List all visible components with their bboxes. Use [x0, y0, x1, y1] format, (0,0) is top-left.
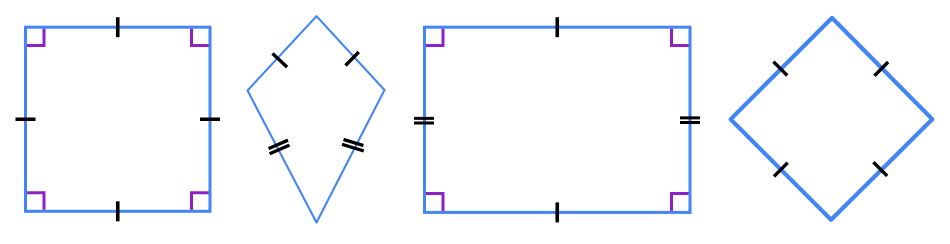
rhombus tick lower-right — [873, 162, 887, 176]
rectangle double tick right — [680, 118, 700, 123]
rhombus tick upper-left — [773, 62, 787, 76]
rhombus tick upper-right — [874, 62, 888, 76]
square tick left — [16, 117, 36, 121]
kite tick upper-right — [346, 52, 359, 66]
rectangle tick top — [555, 17, 559, 37]
square right-angle marker top-left — [27, 29, 44, 46]
rectangle — [425, 27, 691, 212]
rhombus — [731, 18, 933, 220]
rectangle tick bottom — [555, 202, 559, 222]
square right-angle marker bottom-right — [192, 193, 209, 210]
rectangle double tick left — [414, 118, 434, 123]
square right-angle marker top-right — [192, 29, 209, 46]
square tick bottom — [116, 201, 120, 221]
square — [26, 27, 211, 211]
rectangle right-angle marker bottom-right — [672, 194, 689, 211]
rectangle right-angle marker top-right — [672, 29, 689, 46]
square tick right — [200, 117, 220, 121]
kite double tick lower-right — [342, 140, 364, 151]
kite double tick lower-left — [269, 140, 290, 154]
rectangle right-angle marker bottom-left — [426, 194, 443, 211]
kite — [248, 16, 385, 222]
kite tick upper-left — [273, 54, 288, 68]
rectangle right-angle marker top-left — [426, 29, 443, 46]
square tick top — [116, 17, 120, 37]
rhombus tick lower-left — [774, 163, 788, 177]
square right-angle marker bottom-left — [27, 193, 44, 210]
